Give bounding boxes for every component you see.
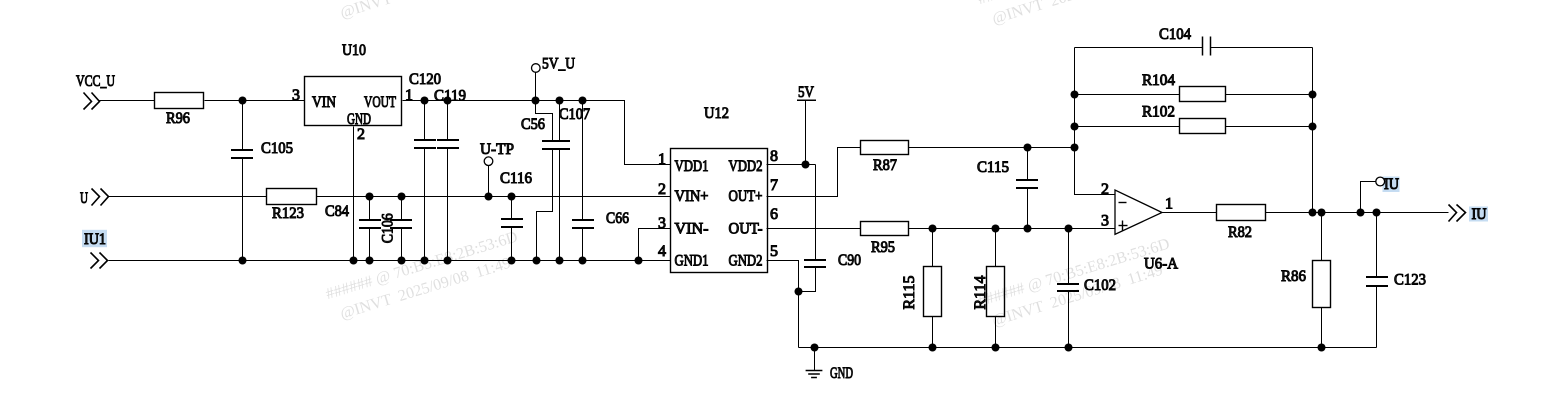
capacitor C120 [409, 71, 441, 261]
wire R104 row left [1075, 94, 1180, 96]
resistor R114 [972, 229, 1005, 348]
svg-text:C104: C104 [1159, 26, 1191, 43]
capacitor C119 [434, 88, 466, 261]
svg-text:IU1: IU1 [84, 231, 106, 248]
resistor R104 [1142, 72, 1226, 102]
svg-text:5: 5 [770, 243, 778, 260]
wire feedback right vertical [1312, 48, 1314, 213]
svg-text:8: 8 [770, 148, 778, 165]
capacitor C56 [521, 101, 570, 261]
svg-text:5V_U: 5V_U [542, 56, 575, 73]
ground symbol GND [806, 348, 853, 383]
junctions U net [366, 193, 516, 201]
svg-text:VDD1: VDD1 [675, 158, 709, 175]
svg-text:R95: R95 [871, 239, 895, 256]
wire R102 row left [1075, 126, 1180, 128]
port IU chevron [1449, 205, 1466, 222]
junctions output row [1309, 209, 1381, 217]
capacitor C116 [500, 170, 532, 261]
svg-text:4: 4 [658, 243, 666, 260]
svg-text:1: 1 [405, 87, 413, 104]
svg-text:C107: C107 [559, 106, 590, 123]
svg-text:3: 3 [1101, 213, 1109, 230]
resistor R115 [901, 229, 942, 348]
IC U12 [671, 105, 768, 273]
U12 pin number 4 [658, 243, 666, 260]
regulator U10 [305, 42, 402, 128]
svg-text:C105: C105 [261, 140, 293, 157]
svg-text:GND2: GND2 [729, 253, 763, 270]
svg-text:R96: R96 [166, 110, 190, 127]
junctions IU1 net [239, 257, 643, 265]
wire R96 to U10 pin3 [205, 100, 305, 102]
wire R104 row right [1226, 94, 1313, 96]
svg-text:R102: R102 [1142, 104, 1175, 121]
resistor R96 [155, 93, 204, 128]
svg-text:VOUT: VOUT [364, 94, 396, 111]
capacitor C107 [559, 101, 590, 261]
svg-text:3: 3 [658, 215, 666, 232]
svg-text:VDD2: VDD2 [729, 158, 763, 175]
watermark block mid-left [323, 226, 527, 328]
resistor R102 [1142, 104, 1226, 134]
svg-text:C66: C66 [606, 210, 629, 227]
svg-text:C102: C102 [1084, 277, 1116, 294]
svg-text:2: 2 [658, 181, 666, 198]
U12 pin number 5 [770, 243, 778, 260]
svg-text:R123: R123 [272, 205, 304, 222]
svg-text:6: 6 [770, 206, 778, 223]
U10 pin number 2 [357, 126, 365, 143]
svg-text:R82: R82 [1228, 224, 1252, 241]
U12 pin number 2 [658, 181, 666, 198]
wire IU1 elbow to U12 pin3 [639, 229, 671, 261]
testpoint IU [1361, 177, 1385, 212]
svg-text:GND1: GND1 [675, 253, 709, 270]
junctions top net [421, 97, 587, 105]
svg-text:C116: C116 [500, 170, 532, 187]
svg-text:7: 7 [770, 177, 778, 194]
wire op-amp output to R82 [1163, 212, 1217, 214]
watermark block top-left [323, 0, 527, 27]
wire U10 VOUT to U12 pin1 corner [403, 101, 671, 165]
net label IU at testpoint [1383, 176, 1400, 193]
svg-text:C120: C120 [409, 71, 441, 88]
svg-text:3: 3 [292, 87, 300, 104]
svg-text:OUT+: OUT+ [729, 188, 763, 205]
wire U12 pin8 VDD2 [767, 164, 816, 166]
wire U10 GND pin2 down to IU1 net [353, 127, 355, 261]
op-amp pin number 2 [1101, 181, 1109, 198]
watermark block top-right [975, 0, 1179, 33]
port IU1 chevron [91, 253, 108, 269]
wire R95 to op-amp pin3 [909, 228, 1115, 230]
junctions feedback verticals [1071, 91, 1317, 131]
svg-text:R115: R115 [901, 276, 918, 310]
ground rail wire [799, 347, 1377, 349]
junctions ground rail [811, 344, 1326, 352]
net label IU at port [1469, 206, 1488, 223]
svg-text:R114: R114 [972, 276, 989, 310]
svg-text:U-TP: U-TP [480, 141, 514, 158]
svg-text:GND: GND [830, 365, 853, 382]
svg-text:C90: C90 [838, 252, 861, 269]
resistor R123 [267, 189, 317, 223]
svg-text:IU: IU [1472, 206, 1487, 223]
svg-text:R104: R104 [1142, 72, 1175, 89]
wire R123 to U12 pin2 [317, 196, 671, 198]
U10 pin number 3 [292, 87, 300, 104]
capacitor C66 [572, 101, 629, 261]
wire U12 pin5 GND2 down to rail [767, 261, 799, 348]
svg-text:5V: 5V [798, 84, 814, 101]
svg-text:VIN+: VIN+ [675, 188, 709, 205]
U10 pin number 1 [405, 87, 413, 104]
svg-text:VCC_U: VCC_U [76, 73, 115, 90]
port U label [80, 190, 88, 207]
junctions R87 row [1024, 144, 1079, 152]
svg-text:OUT-: OUT- [729, 221, 763, 238]
testpoint U-TP [480, 141, 514, 197]
svg-text:R86: R86 [1281, 268, 1306, 285]
svg-text:2: 2 [1101, 181, 1109, 198]
resistor R87 [861, 141, 909, 175]
U12 pin number 3 [658, 215, 666, 232]
svg-text:C115: C115 [977, 159, 1009, 176]
svg-text:U: U [80, 190, 88, 207]
wire U net to R123 [109, 196, 267, 198]
svg-text:1: 1 [1165, 196, 1173, 213]
svg-text:U6-A: U6-A [1144, 256, 1178, 273]
U12 pin number 8 [770, 148, 778, 165]
U12 pin number 6 [770, 206, 778, 223]
wire U12 pin6 OUT- to R95 [767, 228, 861, 230]
svg-text:1: 1 [658, 151, 666, 168]
testpoint 5V_U [532, 56, 576, 101]
capacitor C104 [1075, 26, 1313, 56]
junction C90 pin5 [795, 288, 803, 296]
capacitor C102 [1057, 229, 1116, 348]
svg-text:C106: C106 [380, 213, 397, 243]
svg-text:VIN-: VIN- [675, 221, 709, 238]
power symbol 5V [797, 84, 816, 165]
capacitor C115 [977, 148, 1038, 229]
wire R102 row right [1226, 126, 1313, 128]
U12 pin number 7 [770, 177, 778, 194]
svg-text:2: 2 [357, 126, 365, 143]
capacitor C90 [799, 165, 862, 292]
svg-text:C84: C84 [325, 203, 349, 220]
port VCC_U chevron [84, 93, 100, 110]
op-amp U6-A [1115, 190, 1178, 273]
resistor R95 [861, 222, 909, 257]
wire IU1 net to U12 pin4 [109, 260, 671, 262]
wire R87 to feedback node [909, 147, 1075, 149]
resistor R86 [1281, 213, 1331, 348]
wire feedback left vertical to op-amp pin2 [1075, 48, 1115, 195]
svg-text:C56: C56 [521, 116, 545, 133]
wire R82 to IU port [1266, 212, 1449, 214]
svg-text:IU: IU [1384, 176, 1399, 193]
capacitor C105 [231, 101, 293, 261]
capacitor C123 [1366, 213, 1426, 348]
junction 5V pin8 [802, 161, 810, 169]
op-amp pin number 1 [1165, 196, 1173, 213]
capacitor C84 [325, 197, 381, 261]
svg-text:U12: U12 [704, 105, 729, 122]
svg-text:C123: C123 [1394, 272, 1426, 289]
svg-text:U10: U10 [342, 42, 366, 59]
wire U12 pin7 OUT+ elbow to R87 [767, 148, 861, 197]
port U chevron [92, 189, 109, 206]
svg-text:R87: R87 [873, 157, 897, 174]
junction node R96/C105 [239, 97, 247, 105]
port VCC_U label [76, 73, 115, 90]
junctions R95 row [929, 225, 1073, 233]
watermark block mid-right [975, 233, 1179, 335]
svg-text:VIN: VIN [312, 94, 336, 111]
op-amp pin number 3 [1101, 213, 1109, 230]
wire VCC_U to R96 [100, 100, 155, 102]
net label IU1 [82, 230, 107, 248]
capacitor C106 [380, 197, 413, 261]
U12 pin number 1 [658, 151, 666, 168]
resistor R82 [1217, 205, 1266, 242]
